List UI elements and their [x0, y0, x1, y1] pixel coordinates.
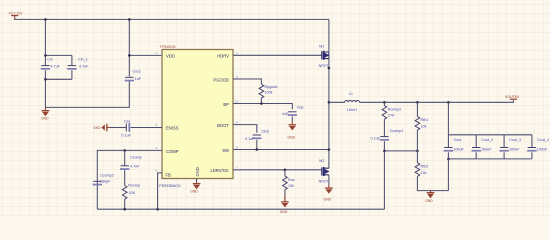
svg-text:Rfb1: Rfb1 — [421, 118, 429, 122]
capacitor Cbp — [282, 105, 304, 116]
capacitor Cbst — [245, 130, 269, 141]
svg-text:10K: 10K — [129, 191, 136, 195]
pin 11 GND bottom — [195, 167, 200, 176]
svg-text:PGOOD: PGOOD — [213, 77, 229, 82]
node fb bottom — [156, 208, 159, 211]
node capbank bottom left — [447, 158, 450, 161]
wire rfb1 lead — [416, 102, 418, 116]
wire SW pin — [233, 149, 329, 151]
wire Css to EN/SS pin — [131, 127, 163, 129]
node cin bottom — [44, 78, 47, 81]
svg-text:VDD: VDD — [166, 54, 175, 59]
svg-text:1uF: 1uF — [282, 112, 289, 116]
svg-text:4.7uF: 4.7uF — [51, 65, 61, 69]
svg-text:10k: 10k — [421, 124, 427, 128]
op-amp U1 TPS40190 body — [160, 45, 234, 179]
svg-text:GND: GND — [324, 197, 332, 201]
wire capbank drop — [447, 102, 449, 135]
capacitor Cout — [444, 135, 465, 159]
capacitor Css — [122, 120, 132, 138]
svg-text:10: 10 — [235, 99, 239, 103]
svg-text:GND: GND — [425, 199, 433, 203]
wire cbp to gnd — [291, 116, 293, 121]
pin 1 VDD — [156, 51, 175, 58]
svg-text:0.1uF: 0.1uF — [122, 134, 132, 138]
capacitor Ccomp — [120, 156, 142, 170]
node rail-cin — [44, 18, 47, 21]
wire SW vertical — [328, 59, 330, 169]
resistor Rcomp2 — [382, 106, 401, 120]
svg-text:FB: FB — [166, 172, 172, 177]
wire VCC rail top — [14, 18, 329, 20]
pin 8 SW — [222, 145, 238, 152]
svg-text:100uF: 100uF — [453, 148, 464, 152]
node rail-vdd — [128, 18, 131, 21]
wire rcomp2 to ccomp1 — [383, 119, 385, 137]
ground GND input caps — [41, 107, 49, 120]
wire PGOOD pin — [233, 79, 261, 84]
pin 6 EN/SS — [156, 123, 179, 131]
capacitor Cout_2 — [472, 135, 494, 159]
node vdd-cvcc — [128, 54, 131, 57]
wire comp branch drop — [124, 150, 126, 165]
power port VCC12V — [9, 12, 24, 20]
svg-text:4.7uF: 4.7uF — [79, 65, 89, 69]
node sw-vertical — [328, 148, 331, 151]
node ccomp1-mid — [383, 150, 386, 153]
node sw-L1 — [328, 101, 331, 104]
transistor M1 — [319, 44, 329, 68]
ground GND at M2 — [324, 185, 333, 201]
node ldrv-resistor — [284, 169, 287, 172]
svg-text:NFET: NFET — [319, 180, 329, 184]
wire COMP to network — [97, 150, 162, 209]
node vout capbank — [447, 101, 450, 104]
node cin top — [44, 54, 47, 57]
wire input cap drop — [44, 19, 46, 55]
node rcomp2 tap — [383, 101, 386, 104]
svg-text:27K: 27K — [388, 113, 395, 117]
svg-text:100uF: 100uF — [509, 148, 520, 152]
wire capbank top rail — [448, 134, 532, 136]
power port VOUT5V — [505, 95, 520, 100]
wire M1 drain drop — [328, 19, 330, 51]
pin 9 BOOT — [217, 121, 238, 128]
capacitor Cout_3 — [499, 135, 521, 159]
svg-text:Cvcc: Cvcc — [133, 70, 141, 74]
node cbst-sw — [255, 148, 258, 151]
wire cvcc top lead — [128, 55, 130, 76]
svg-text:13k: 13k — [421, 171, 427, 175]
svg-text:Ros: Ros — [288, 178, 295, 182]
svg-text:GND: GND — [288, 136, 296, 140]
wire cin top rail — [45, 54, 72, 56]
svg-text:COMP: COMP — [166, 149, 179, 154]
svg-text:Ccomp2: Ccomp2 — [100, 174, 114, 178]
wire LDRV pin — [233, 169, 322, 171]
svg-text:SW: SW — [222, 148, 229, 153]
svg-text:M2: M2 — [319, 159, 324, 163]
svg-text:Cout_2: Cout_2 — [481, 138, 493, 142]
wire capbank to gnd — [447, 159, 449, 191]
wire mid link to divider — [384, 150, 417, 152]
svg-text:4.7nF: 4.7nF — [130, 165, 140, 169]
svg-text:Rcomp2: Rcomp2 — [388, 107, 402, 111]
svg-text:100uF: 100uF — [481, 148, 492, 152]
svg-text:Cbst: Cbst — [262, 130, 270, 134]
svg-text:EN/SS: EN/SS — [166, 126, 179, 131]
svg-text:NFET: NFET — [319, 64, 329, 68]
wire cvcc bottom return — [45, 81, 129, 108]
resistor Ros — [283, 176, 295, 190]
wire rpgood to BP — [260, 98, 262, 104]
svg-text:0.1uF: 0.1uF — [245, 137, 255, 141]
pin 2 HDRV — [217, 51, 238, 58]
svg-text:Rfb2: Rfb2 — [421, 164, 429, 168]
wire ros to gnd — [284, 190, 286, 202]
wire vdd drop — [128, 19, 130, 55]
svg-text:13k: 13k — [288, 184, 294, 188]
capacitor Cin_1 — [67, 55, 89, 79]
svg-text:GND: GND — [41, 116, 49, 120]
wire IC gnd stub — [196, 179, 198, 183]
svg-text:Rpgood: Rpgood — [265, 85, 278, 89]
wire BOOT pin — [233, 125, 257, 133]
pin 10 BP — [223, 99, 238, 106]
node comp branch — [123, 149, 126, 152]
svg-text:Ccomp: Ccomp — [130, 156, 142, 160]
svg-text:TPS40190: TPS40190 — [160, 45, 176, 49]
resistor Rfb1 — [415, 117, 428, 131]
node rpgood-bp — [260, 102, 263, 105]
ground GND below IC — [190, 182, 200, 194]
capacitor Ccomp2 — [93, 174, 114, 186]
ground GND at EN/SS (left arrow) — [93, 124, 111, 132]
wire gnd to Css — [110, 127, 126, 129]
wire cbst to SW — [256, 140, 258, 150]
svg-text:BP: BP — [223, 102, 229, 107]
wire ccomp1 down to FB net — [383, 141, 385, 209]
svg-text:HDRV: HDRV — [217, 54, 229, 59]
capacitor Ccomp1 — [371, 129, 404, 141]
capacitor Cvcc — [125, 70, 142, 82]
pin 4 COMP — [156, 146, 179, 154]
node rfb1 tap — [416, 101, 419, 104]
ground GND output — [425, 191, 434, 204]
transistor M2 — [319, 159, 329, 184]
svg-text:Rcomp: Rcomp — [128, 183, 140, 187]
svg-text:GND: GND — [195, 167, 200, 176]
pin 5 FB — [156, 168, 172, 177]
svg-text:BOOT: BOOT — [217, 123, 229, 128]
inductor L1 — [345, 92, 360, 112]
wire cin bottom rail — [45, 78, 72, 80]
svg-text:100uF: 100uF — [537, 148, 548, 152]
svg-text:GND: GND — [190, 190, 198, 194]
wire cin gnd drop — [44, 79, 46, 107]
ground GND at Cbp — [288, 122, 297, 140]
ground GND at Ros — [280, 197, 289, 214]
wire rcomp to bottom — [124, 199, 126, 209]
wire capbank bottom rail — [448, 158, 532, 160]
wire ccomp to rcomp — [124, 170, 126, 186]
pin 7 LDRV/OC — [210, 166, 238, 173]
wire M2 gate — [321, 166, 323, 170]
wire BP pin — [233, 104, 292, 110]
svg-text:Css: Css — [124, 120, 131, 124]
svg-text:1uF: 1uF — [135, 77, 142, 81]
svg-text:180pF: 180pF — [100, 180, 111, 184]
capacitor Cout_4 — [527, 135, 549, 159]
capacitor Cin — [41, 55, 61, 79]
svg-text:Cin: Cin — [47, 57, 53, 61]
node M1 source — [328, 67, 331, 70]
svg-text:100k: 100k — [265, 90, 273, 94]
node divider mid — [416, 150, 419, 153]
svg-text:Cout_4: Cout_4 — [537, 138, 549, 142]
resistor Rpgood — [259, 84, 277, 98]
svg-text:GND: GND — [280, 210, 288, 214]
pin 3 PGOOD — [213, 75, 238, 82]
wire L1 to output — [359, 100, 513, 102]
wire vdd to IC — [129, 54, 162, 56]
svg-text:GND: GND — [93, 126, 101, 130]
wire bottom FB net — [97, 208, 384, 210]
svg-text:LDRV/OC: LDRV/OC — [210, 168, 229, 173]
wire M2 source to gnd — [328, 175, 330, 185]
resistor Rcomp — [122, 183, 140, 199]
svg-text:Cout: Cout — [454, 138, 462, 142]
wire rfb1 to mid — [416, 130, 418, 151]
wire ldrv resistor drop — [284, 170, 286, 176]
wire HDRV to M1 gate — [233, 54, 322, 56]
svg-text:10mH: 10mH — [347, 108, 357, 112]
wire rcomp2 lead — [383, 102, 385, 105]
svg-text:Ccomp1: Ccomp1 — [390, 129, 404, 133]
wire sw to L1 — [329, 101, 345, 103]
svg-text:FEEDBACK: FEEDBACK — [159, 183, 181, 188]
wire rfb2 to gnd corner — [417, 176, 448, 190]
node rcomp bottom — [123, 208, 126, 211]
svg-text:Cbp: Cbp — [297, 105, 304, 109]
svg-text:L1: L1 — [349, 92, 353, 96]
svg-text:Cout_3: Cout_3 — [509, 138, 521, 142]
svg-text:0.1uF: 0.1uF — [371, 137, 381, 141]
resistor Rfb2 — [415, 163, 428, 177]
svg-text:M1: M1 — [319, 44, 324, 48]
svg-text:Cin_1: Cin_1 — [78, 57, 88, 61]
wire FB pin drop — [158, 173, 162, 209]
wire mid to rfb2 — [416, 151, 418, 163]
